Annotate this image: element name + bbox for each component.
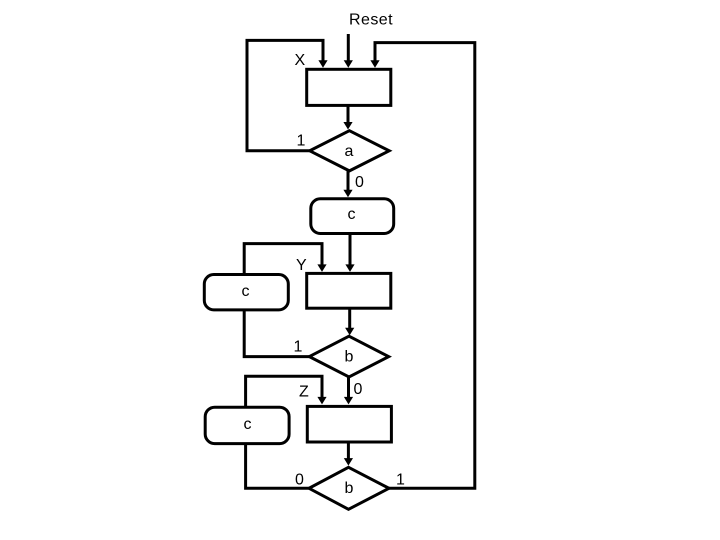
svg-text:b: b bbox=[345, 349, 354, 366]
svg-text:0: 0 bbox=[355, 174, 364, 191]
svg-text:0: 0 bbox=[354, 381, 363, 398]
svg-text:c: c bbox=[244, 416, 252, 433]
svg-text:1: 1 bbox=[297, 133, 306, 150]
svg-text:1: 1 bbox=[396, 472, 405, 489]
svg-text:Y: Y bbox=[296, 257, 307, 274]
svg-text:c: c bbox=[348, 206, 356, 223]
svg-text:0: 0 bbox=[295, 472, 304, 489]
svg-text:a: a bbox=[345, 143, 354, 160]
svg-text:Z: Z bbox=[299, 384, 309, 401]
svg-text:X: X bbox=[295, 52, 306, 69]
svg-text:Reset: Reset bbox=[349, 12, 393, 29]
svg-text:1: 1 bbox=[294, 339, 303, 356]
svg-text:c: c bbox=[242, 283, 250, 300]
svg-text:b: b bbox=[345, 480, 354, 497]
